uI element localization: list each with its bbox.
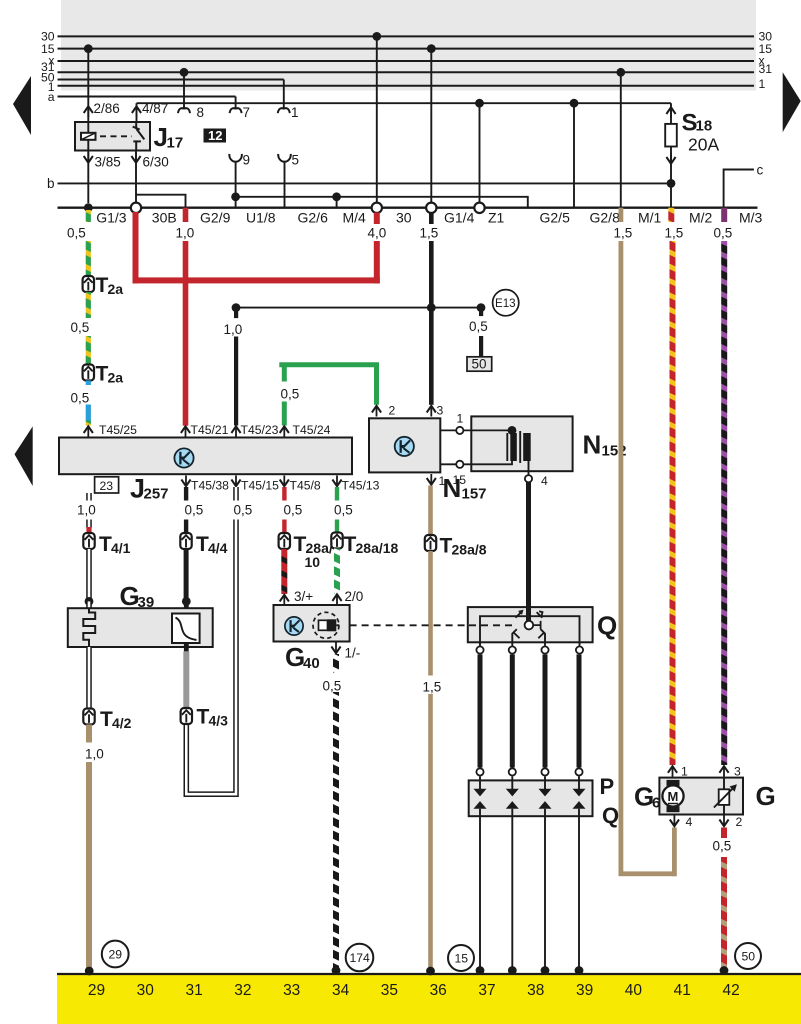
G40 K symbol [285,617,303,635]
svg-text:39: 39 [138,594,155,611]
page arrow left top [13,76,31,135]
wire white T4/1 to G39 [86,549,92,601]
svg-text:G1/4: G1/4 [444,210,475,226]
svg-text:39: 39 [576,982,593,999]
fuse S18 top arrow [666,107,675,118]
wire fork 8 from bus 31 [183,72,185,107]
svg-text:3: 3 [437,404,444,418]
bus 15 [58,48,755,50]
bus labels left [41,30,55,104]
hall sender G40 box [274,605,350,642]
svg-text:257: 257 [144,486,169,503]
G40 dashed circle [313,612,339,638]
control unit J257 box [59,438,352,475]
wire brown to rail left [86,762,92,970]
wire red T45/8 upper [282,487,286,501]
svg-text:1,5: 1,5 [420,226,439,241]
wire red G2/9 down to T45/21 [183,241,189,426]
svg-text:1,5: 1,5 [423,680,442,695]
wire black E13 branch horizontal [236,307,481,309]
terminal row line [58,207,758,209]
svg-text:12: 12 [208,128,222,143]
terminal fork 7 [230,108,242,113]
connector T4/2 [83,709,94,725]
distributor mid contacts [512,629,545,646]
svg-text:0,5: 0,5 [185,503,204,518]
wire black 1,0 to T45/23 lower [234,337,238,426]
svg-text:32: 32 [234,982,251,999]
wire black 1,0 to T45/23 upper [234,308,238,319]
svg-text:Z1: Z1 [488,210,505,226]
wire white T45/15 upper [233,487,239,501]
arrow T45/8 [280,476,289,487]
ground rail yellow band [57,974,801,1024]
svg-text:T45/15: T45/15 [241,479,279,493]
node black-white at rail [332,966,341,975]
label circle E13 [493,290,519,316]
svg-text:2: 2 [389,404,396,418]
bus background band [61,0,756,91]
arrow 3/plus [280,595,289,606]
svg-text:1,0: 1,0 [77,503,96,518]
svg-text:0,5: 0,5 [67,226,86,241]
arrow 1/minus [331,643,340,654]
svg-text:0,5: 0,5 [284,503,303,518]
arrow T45/38 [181,476,190,487]
coil primary thin line [506,433,508,461]
bus 30 [58,35,755,37]
wire green-yellow mid1 [86,292,91,318]
node on bus 15 [84,44,93,53]
svg-text:38: 38 [527,982,544,999]
wire long horizontal to fuse [137,102,672,104]
wire red T45/8 mid [282,520,286,534]
relay J17 contact [133,122,145,151]
fuel pump G6 and sender G box [659,778,743,815]
arrow T45/25 [84,426,93,437]
wire white T45/15 long with corner to T4/3 [186,520,236,795]
terminal circle 1 [456,427,463,434]
connector T2a first [83,276,94,292]
node bus 15 right [427,44,436,53]
relay J17 dashed link [100,135,132,137]
svg-text:M/2: M/2 [689,210,713,226]
svg-text:G1/3: G1/3 [96,210,127,226]
wire black T4/4 to G39 [184,549,189,601]
G39 heater zigzag [83,608,95,647]
G sender resistor [719,789,730,805]
N157 K symbol [395,437,414,456]
wire black 1,5 G1/4 stub [429,213,434,224]
wire red-yellow to G6 [670,241,676,765]
wire black-white long to rail [333,692,339,969]
rotor contact right [533,621,540,629]
wire white into G39 [86,601,92,608]
wire G1/4 feed from bus 15 [430,49,432,203]
wire green T45/24 upper [282,365,377,426]
wire green-white T45/13 upper [335,487,339,501]
distributor comb [480,616,580,646]
svg-text:0,5: 0,5 [281,387,300,402]
arrow G6 pin4 [670,816,679,827]
svg-text:4,0: 4,0 [368,226,387,241]
wire b line [58,182,672,184]
svg-text:23: 23 [100,479,114,493]
wire brown N157 pin1 upper [428,486,433,535]
svg-text:28a/8: 28a/8 [452,542,487,558]
svg-text:18: 18 [696,118,713,135]
svg-text:33: 33 [283,982,300,999]
svg-text:c: c [757,163,764,178]
svg-text:6: 6 [652,795,660,812]
svg-text:8: 8 [197,105,205,120]
node on bus 31 [180,68,189,77]
node branch right E13 [477,303,486,312]
svg-text:1: 1 [759,77,766,91]
svg-text:1,0: 1,0 [85,747,104,762]
relay J17 coil wire [87,122,89,151]
wire E13 stub lower [479,336,483,357]
svg-text:30: 30 [396,210,412,226]
wire 6/30 to terminal 30B [135,151,137,203]
wire violet M/3 stub [721,208,727,222]
svg-text:1: 1 [681,765,688,779]
connector T28a/10 [279,533,290,549]
lambda probe G39 box [68,608,213,647]
svg-text:17: 17 [167,135,184,152]
wire red-black striped to G40 [281,549,287,594]
node jumper at U1/8 [231,192,240,201]
svg-text:2/86: 2/86 [94,101,120,116]
arrow 2/86 [84,106,93,117]
node Z1 on horizontal [475,99,484,108]
svg-text:2: 2 [736,815,743,829]
wire fork 7 from bus a [235,97,237,108]
wire green-yellow tip [86,421,91,426]
spark lead rail nodes [476,966,485,975]
svg-text:15: 15 [453,473,467,487]
wire red-yellow M/2 stub [668,208,674,222]
svg-text:31: 31 [185,982,202,999]
svg-text:Q: Q [602,803,619,828]
svg-text:3/+: 3/+ [294,589,313,604]
svg-text:2/0: 2/0 [345,589,364,604]
svg-text:T45/23: T45/23 [241,423,279,437]
wire G2/8 riser [573,103,575,207]
G6 motor brush top [667,780,680,786]
wire fork 9 [235,161,237,208]
wire black-violet to G [721,241,727,765]
rotor ticks [514,611,544,638]
connector T28a/8 [425,535,436,551]
svg-text:0,5: 0,5 [323,679,342,694]
wire black 1,5 G1/4 down to N157 [429,241,434,405]
wire blue lower [86,405,91,422]
wire brown long to rail [428,694,433,969]
wire black-white below G40 [333,654,339,673]
arrow N157 pin1 bottom [427,474,436,485]
svg-text:U1/8: U1/8 [246,210,276,226]
destination box 23 [95,477,119,493]
page arrow right [783,72,801,132]
connector T28a/18 [331,533,342,549]
HT lead inside distributor [526,607,531,621]
node b line end [667,179,676,188]
svg-text:7: 7 [243,105,251,120]
svg-text:M/1: M/1 [638,210,662,226]
svg-text:4: 4 [686,815,693,829]
svg-text:N: N [583,430,602,460]
arrow T45/21 [181,426,190,437]
wire jumper U1/8 to G2/5 [236,197,528,208]
wire white below G39 [86,647,92,709]
svg-text:3: 3 [734,765,741,779]
wire N157 to terminal 15 [440,463,456,465]
G6 motor brush bottom [667,806,680,812]
wire size labels row [67,226,732,241]
coil node [508,426,517,435]
distributor terminal circles [476,646,483,653]
svg-text:42: 42 [722,982,739,999]
relay J17 box [75,122,150,151]
svg-text:T45/13: T45/13 [342,479,380,493]
svg-text:10: 10 [305,554,321,570]
destination box 50 [467,357,492,371]
G40 sensor rect solid [328,619,337,631]
terminal fork 8 [178,108,190,113]
svg-text:4/3: 4/3 [209,713,229,729]
node jumper at M/4 [332,192,341,201]
wire green-white T45/13 mid [335,520,339,534]
svg-text:30: 30 [137,982,155,999]
wire brown bottom corner [619,871,677,876]
G39 sensor curve [176,618,197,641]
terminal fork 1 [278,108,290,113]
wire stub M/4 [336,197,338,208]
node branch middle [427,303,436,312]
wire white 23 mid [86,520,92,528]
svg-text:9: 9 [243,153,251,168]
svg-text:T45/24: T45/24 [293,423,331,437]
svg-text:1,5: 1,5 [665,226,684,241]
wire gray G39 to T4/3 [183,651,189,709]
node brown rail left [85,967,94,976]
svg-text:G2/8: G2/8 [590,210,621,226]
code box 12 [204,129,227,143]
svg-text:0,5: 0,5 [713,839,732,854]
arrow T45/24 [280,426,289,437]
wire green-yellow G1/3 stub [86,210,91,222]
wire red tip T4/1 [86,527,91,533]
wire brown stub below T4/2 [86,725,92,743]
svg-text:2a: 2a [108,370,124,386]
svg-text:34: 34 [332,982,350,999]
wire c [724,170,754,208]
svg-text:0,5: 0,5 [334,503,353,518]
wire green-yellow mid2 [86,336,91,365]
terminal Z1 circle [474,203,484,213]
svg-text:0,5: 0,5 [71,391,90,406]
spark connectors P box [469,780,593,816]
wire jumper 30B to G2/9 [136,195,186,208]
rail numbers [88,982,740,999]
relay J17 coil [81,133,96,140]
bus x [58,60,755,62]
coil wire terminal 1 into box [463,429,512,431]
distributor Q box [468,607,593,642]
wire brown G2/8 long [619,241,624,874]
ground ref circle 174 [346,944,374,972]
svg-text:29: 29 [88,982,105,999]
G sender arrow [714,787,734,807]
wire 30 feed from bus 30 [376,36,378,202]
ground ref circle 15 [448,945,474,971]
wire 2/86 from bus 15 to J17 [87,49,89,122]
wire red-tan to rail [721,857,727,969]
svg-text:40: 40 [303,655,320,672]
wire M/1 riser from bus 31 [620,72,622,207]
arrow T45/13 [332,476,341,487]
wire fork 1 from bus 50 [283,80,285,108]
labels 0,5 under J257 [185,503,353,518]
svg-text:1,5: 1,5 [614,226,633,241]
terminal G1/3 node [84,203,93,212]
wire black T45/38 mid [184,520,188,534]
terminal circle 4 [525,475,532,482]
arrow N157 pin2 [372,406,381,417]
wire blue stub [86,381,91,386]
bus 50 [58,79,284,81]
J257 K symbol [174,448,193,467]
arrow T45/15 [231,476,240,487]
wire brown below T28a/8 [428,551,433,676]
svg-text:5: 5 [292,153,300,168]
connector T4/3 [181,708,192,724]
svg-text:0,5: 0,5 [469,319,488,334]
svg-text:G2/6: G2/6 [298,210,329,226]
fuse S18 wire [670,103,672,206]
wire 3/85 to row [87,151,89,204]
terminal fork 9 [229,154,242,162]
fuse S18 bottom arrow [666,153,675,164]
spark plug leads to rail [480,816,579,969]
svg-text:41: 41 [674,982,691,999]
svg-text:b: b [47,176,55,191]
arrow 2/0 [332,594,341,605]
ignition coil N152 box [471,416,572,471]
wire brown G2/8 stub [619,208,624,222]
arrow T45/23 [231,426,240,437]
G40 sensor rect open [319,620,328,630]
svg-text:4/1: 4/1 [111,540,131,556]
node bus 30 [372,32,381,41]
svg-text:0,5: 0,5 [234,503,253,518]
wire red G2/9 stub [183,208,189,222]
svg-text:1,0: 1,0 [224,322,243,337]
spark gap symbols [474,776,586,816]
node brown at rail [426,967,435,976]
svg-text:4/2: 4/2 [112,715,132,731]
wire green-yellow upper [86,241,91,277]
page arrow left middle [15,426,33,486]
arrow 4/87 [132,106,141,117]
svg-text:37: 37 [478,982,495,999]
node bus 31 right [616,68,625,77]
G39 sensor symbol box [172,614,200,644]
wire 4/87 riser [136,103,138,122]
svg-text:0,5: 0,5 [714,226,733,241]
control unit N157 box [369,418,440,472]
svg-text:G2/9: G2/9 [200,210,231,226]
distributor rotor circle [525,621,534,630]
svg-text:36: 36 [430,982,447,999]
dashed link inside distributor [469,624,512,626]
wire red 4,0 lower [374,241,380,283]
dashed link G40 to distributor [350,624,466,626]
svg-text:E13: E13 [495,297,516,310]
svg-text:T45/38: T45/38 [191,479,229,493]
svg-text:Q: Q [597,611,617,641]
terminal 30 circle [372,203,382,213]
wire brown up to G6 pin4 [672,828,677,877]
svg-text:20A: 20A [688,135,719,155]
coil wire terminal 15 into box [463,460,512,464]
wire white 23 upper [86,493,92,501]
svg-text:T45/25: T45/25 [99,423,137,437]
svg-text:4/4: 4/4 [208,540,228,556]
svg-text:174: 174 [350,951,371,965]
svg-text:35: 35 [381,982,398,999]
arrow 6/30 [131,152,140,163]
wire E13 stub upper [479,308,483,317]
coil core line [519,431,521,463]
node G39 right top [182,597,191,606]
svg-text:M/3: M/3 [739,210,763,226]
terminal fork 5 [278,154,291,162]
G sender wire inside [723,778,725,815]
wire green-white striped to G40 [334,549,340,594]
svg-text:0,5: 0,5 [71,320,90,335]
svg-text:6/30: 6/30 [143,155,169,170]
wire fork 5 [284,161,286,208]
svg-text:29: 29 [109,948,123,962]
svg-text:40: 40 [625,982,643,999]
arrow N157 pin3 [427,406,436,417]
node G39 left top [85,597,94,606]
ground ref circle 29 [102,941,129,968]
svg-text:1: 1 [457,412,464,426]
terminal 30B circle [131,203,141,213]
arrow G6 pin1 [668,766,677,777]
bus 1 [58,85,755,87]
coil wire to terminal 4 [528,461,530,475]
bus a [58,96,236,98]
wire black T45/38 upper [184,487,188,501]
svg-text:1/-: 1/- [345,646,361,661]
ground ref circle 50 [735,943,761,969]
svg-text:1: 1 [291,105,299,120]
bus labels right [759,30,773,91]
arrow G pin3 [719,766,728,777]
svg-text:50: 50 [742,950,756,964]
wire black into G39 [184,601,189,614]
G6 motor circle [662,785,683,806]
svg-text:30B: 30B [152,210,177,226]
wire Z1 riser [479,103,481,202]
svg-text:50: 50 [472,357,487,372]
wire HT lead coil to distributor [526,482,531,620]
arrow G pin2 [719,816,728,827]
